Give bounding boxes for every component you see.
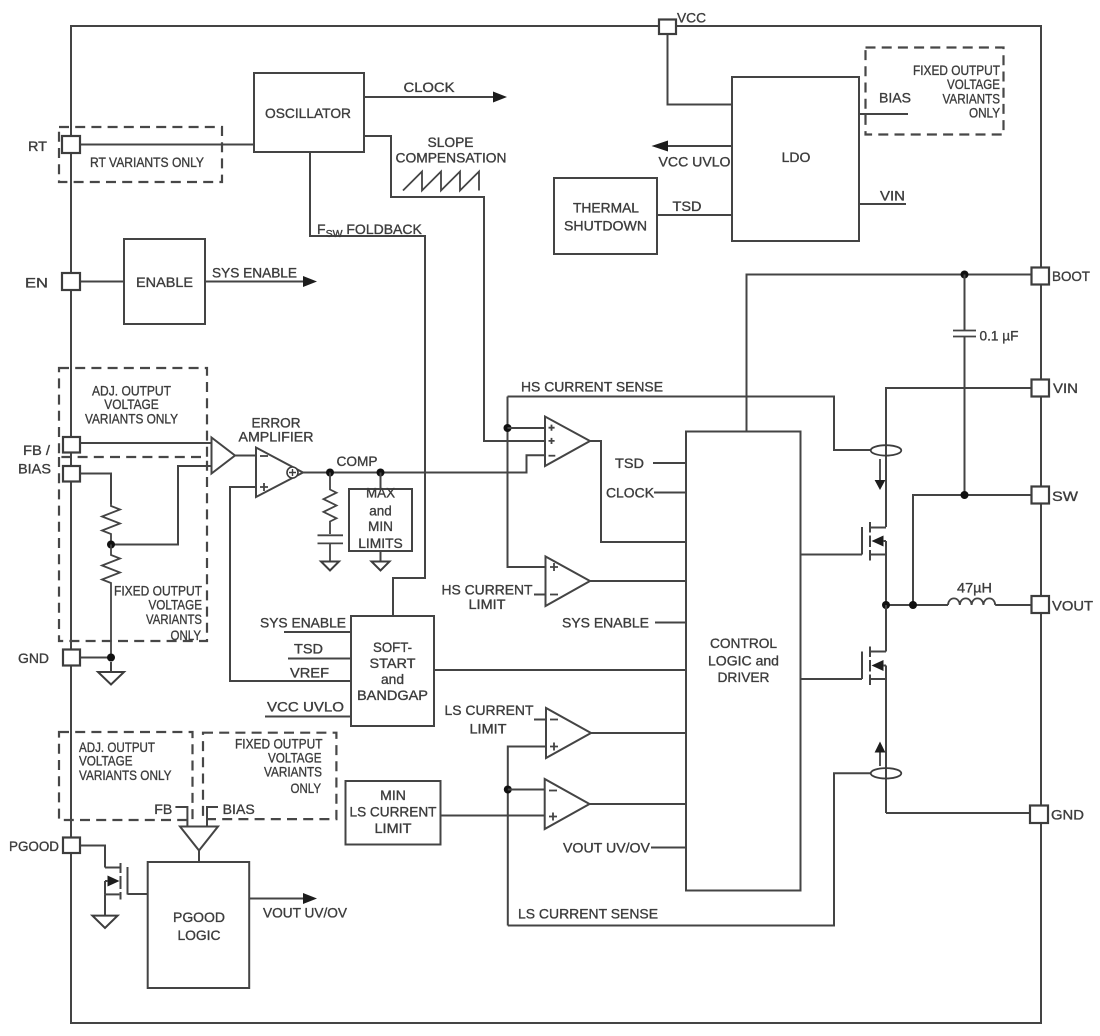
svg-text:LIMIT: LIMIT xyxy=(469,596,506,612)
junction dot COMP at limits box xyxy=(377,469,385,477)
ground symbol below COMP RC xyxy=(321,562,339,571)
svg-text:SLOPE: SLOPE xyxy=(428,134,474,150)
dashed box ADJ. OUTPUT VOLTAGE VARIANTS ONLY (middle left) xyxy=(59,368,207,457)
resistor upper divider xyxy=(102,504,120,545)
pin PGOOD xyxy=(63,838,80,854)
transistor high side FET xyxy=(801,522,887,605)
wire soft-start output to control logic xyxy=(434,669,686,671)
comparator LS current limit xyxy=(546,708,591,758)
wire VCC UVLO arrow from LDO xyxy=(652,141,733,170)
wire CLOCK arrow from oscillator xyxy=(364,79,507,103)
block THERMAL SHUTDOWN xyxy=(554,178,657,254)
wire VCC pin to LDO xyxy=(668,34,733,105)
svg-text:AMPLIFIER: AMPLIFIER xyxy=(239,429,314,445)
svg-text:LS CURRENT: LS CURRENT xyxy=(350,804,437,820)
wire low side source to GND pin xyxy=(886,812,1030,814)
arrow current direction down xyxy=(875,459,886,490)
dashed box RT VARIANTS ONLY xyxy=(59,127,222,182)
svg-text:VARIANTS: VARIANTS xyxy=(264,764,322,780)
ground symbol below limits box xyxy=(372,562,390,571)
svg-text:HS CURRENT SENSE: HS CURRENT SENSE xyxy=(521,379,663,395)
wire LS CURRENT SENSE line to ellipse sensor xyxy=(508,773,871,925)
compensation resistor at COMP xyxy=(324,473,337,535)
block MAX and MIN LIMITS xyxy=(349,485,412,552)
label TSD into control logic xyxy=(615,455,686,471)
merge triangle FB/BIAS xyxy=(180,827,218,851)
junction dot LS sense tap xyxy=(504,786,512,794)
svg-text:PGOOD: PGOOD xyxy=(173,909,225,925)
compensation capacitor at COMP xyxy=(318,535,344,561)
pin GND xyxy=(63,650,80,666)
svg-text:GND: GND xyxy=(18,650,49,666)
feedback buffer triangle xyxy=(212,438,236,474)
wire VCC UVLO into soft-start xyxy=(265,699,351,717)
svg-text:FB /: FB / xyxy=(23,442,50,458)
svg-text:FB: FB xyxy=(154,801,172,817)
pin EN xyxy=(62,273,80,290)
junction dot HS sense tap xyxy=(504,424,512,432)
block MIN LS CURRENT LIMIT xyxy=(346,781,441,845)
wire inductor to VOUT pin xyxy=(995,604,1031,606)
svg-text:START: START xyxy=(370,655,416,671)
svg-text:VCC: VCC xyxy=(677,10,706,26)
svg-text:and: and xyxy=(369,503,392,519)
svg-text:BIAS: BIAS xyxy=(223,801,255,817)
pin FB xyxy=(63,437,80,453)
sawtooth slope compensation symbol xyxy=(396,134,507,191)
svg-text:MAX: MAX xyxy=(366,485,396,501)
transistor low side FET xyxy=(801,605,887,813)
wire PWM comparator output to control logic xyxy=(590,441,686,542)
wire EN pin to ENABLE block xyxy=(80,281,124,283)
dashed box FIXED OUTPUT VOLTAGE VARIANTS ONLY (bottom) xyxy=(203,733,336,819)
svg-text:DRIVER: DRIVER xyxy=(718,669,770,685)
junction dot COMP at RC xyxy=(326,469,334,477)
svg-text:COMP: COMP xyxy=(337,453,378,469)
ground symbol below PGOOD FET xyxy=(92,916,117,928)
wire VOUT UV/OV arrow from PGOOD logic xyxy=(249,893,347,921)
wire LS sense tap to sense comparator xyxy=(508,789,545,791)
wire slope compensation from oscillator down to HS sense comparator input xyxy=(364,136,545,441)
svg-text:VIN: VIN xyxy=(1053,380,1078,396)
svg-text:LIMITS: LIMITS xyxy=(358,535,403,551)
wire BIAS input to pgood merge xyxy=(207,801,255,827)
inductor 47uH xyxy=(948,580,995,606)
wire VIN pin to high side FET drain xyxy=(886,388,1032,527)
svg-text:LS CURRENT SENSE: LS CURRENT SENSE xyxy=(518,906,658,922)
comparator HS current limit xyxy=(546,557,591,607)
svg-text:VCC UVLO: VCC UVLO xyxy=(267,699,344,715)
svg-text:VOUT UV/OV: VOUT UV/OV xyxy=(563,840,651,856)
wire BOOT rail to control logic xyxy=(747,275,1032,432)
wire switch node to inductor xyxy=(886,604,948,606)
svg-text:MIN: MIN xyxy=(380,787,406,803)
wire TSD into soft-start xyxy=(288,641,351,659)
pin GND right xyxy=(1030,806,1048,824)
label LS CURRENT LIMIT with stub xyxy=(445,702,547,737)
junction dot GND node xyxy=(107,654,115,662)
svg-text:THERMAL: THERMAL xyxy=(573,200,639,216)
svg-text:SW: SW xyxy=(1052,488,1079,504)
wire HS current sense line to ellipse sensor xyxy=(508,379,872,451)
svg-text:VREF: VREF xyxy=(290,665,329,681)
wire RT pin to oscillator xyxy=(80,144,254,146)
wire LS current limit output to control logic xyxy=(591,732,686,734)
ground symbol below GND node xyxy=(98,662,124,685)
comparator LS current sense xyxy=(545,779,590,829)
svg-text:CONTROL: CONTROL xyxy=(710,635,777,651)
wire TSD thermal-shutdown to LDO xyxy=(657,198,732,215)
svg-text:and: and xyxy=(381,671,404,687)
svg-text:VOUT: VOUT xyxy=(1052,598,1093,614)
svg-text:GND: GND xyxy=(1051,807,1084,823)
svg-text:LOGIC and: LOGIC and xyxy=(708,653,779,669)
wire VIN from LDO xyxy=(859,188,906,205)
svg-text:BIAS: BIAS xyxy=(879,90,911,106)
block OSCILLATOR xyxy=(254,73,364,152)
wire GND pin to divider bottom xyxy=(80,657,111,659)
capacitor 0.1uF bootstrap xyxy=(953,275,1019,495)
svg-text:EN: EN xyxy=(25,275,48,291)
svg-text:TSD: TSD xyxy=(294,641,323,657)
pin VOUT xyxy=(1032,596,1050,613)
wire HS current limit output to control logic xyxy=(590,580,686,582)
wire FSW FOLDBACK from oscillator to soft-start xyxy=(310,152,425,616)
svg-text:47µH: 47µH xyxy=(957,580,992,596)
pin RT xyxy=(62,136,80,153)
svg-text:RT VARIANTS ONLY: RT VARIANTS ONLY xyxy=(90,154,205,170)
svg-text:CLOCK: CLOCK xyxy=(606,485,655,501)
pin BOOT xyxy=(1032,268,1050,285)
pin VCC xyxy=(659,20,676,35)
wire HS sense down to comparators xyxy=(508,397,546,568)
svg-text:LOGIC: LOGIC xyxy=(178,927,221,943)
dashed box FIXED OUTPUT VOLTAGE VARIANTS ONLY (middle left) xyxy=(59,457,207,643)
wire SYS ENABLE arrow from ENABLE block xyxy=(205,265,317,288)
svg-text:VARIANTS: VARIANTS xyxy=(146,611,202,627)
svg-text:BOOT: BOOT xyxy=(1052,268,1090,284)
current sense ellipse high side xyxy=(871,445,902,455)
svg-text:PGOOD: PGOOD xyxy=(9,838,59,854)
label CLOCK into control logic xyxy=(606,485,686,501)
junction dot divider midpoint xyxy=(107,541,115,549)
block ENABLE xyxy=(124,239,205,324)
wire SW pin to switch node xyxy=(913,495,1032,605)
wire HS sense tap to comparator input xyxy=(508,427,546,429)
svg-text:TSD: TSD xyxy=(673,198,702,214)
pin SW xyxy=(1032,487,1050,504)
svg-text:TSD: TSD xyxy=(615,455,644,471)
svg-text:LIMIT: LIMIT xyxy=(470,721,507,737)
resistor lower divider xyxy=(102,545,120,658)
wire COMP node from error amplifier to HS sense comparator xyxy=(303,455,545,472)
wire FB input to pgood merge xyxy=(154,801,187,827)
pin VIN xyxy=(1032,380,1050,397)
svg-text:BIAS: BIAS xyxy=(18,461,51,477)
dashed box FIXED OUTPUT VOLTAGE VARIANTS ONLY (top right) xyxy=(866,48,1004,135)
op-amp error amplifier xyxy=(239,415,314,498)
svg-text:OSCILLATOR: OSCILLATOR xyxy=(265,105,351,121)
svg-text:LS CURRENT: LS CURRENT xyxy=(445,702,534,718)
wire limits box to ground xyxy=(380,551,382,562)
svg-text:ONLY: ONLY xyxy=(171,627,202,643)
arrow current direction up xyxy=(875,742,886,767)
block SOFT-START and BANDGAP xyxy=(351,616,434,726)
junction dot switch node at SW jog xyxy=(909,601,917,609)
current sense ellipse low side xyxy=(871,768,902,778)
svg-text:LDO: LDO xyxy=(782,149,811,165)
comparator HS current sense (PWM) xyxy=(545,417,590,467)
svg-text:MIN: MIN xyxy=(368,518,393,534)
svg-text:ENABLE: ENABLE xyxy=(136,274,193,290)
label SYS ENABLE into control logic xyxy=(562,615,686,631)
wire COMP dot into limits box xyxy=(380,473,382,492)
svg-text:SYS ENABLE: SYS ENABLE xyxy=(260,615,346,631)
label VOUT UV/OV into control logic xyxy=(563,840,686,856)
pin BIAS xyxy=(63,466,80,482)
svg-text:VCC UVLO: VCC UVLO xyxy=(659,154,731,170)
wire FB pin to feedback buffer xyxy=(80,442,212,444)
wire MIN LS limit box to comparator xyxy=(441,815,545,817)
block LDO xyxy=(732,77,859,241)
wire BIAS pin to divider xyxy=(80,474,111,505)
label HS CURRENT LIMIT with stub xyxy=(442,582,546,613)
wire divider midpoint to buffer lower input xyxy=(111,466,212,545)
svg-text:ONLY: ONLY xyxy=(969,105,1001,121)
svg-text:SHUTDOWN: SHUTDOWN xyxy=(564,218,647,234)
block PGOOD LOGIC xyxy=(148,862,250,988)
svg-text:COMPENSATION: COMPENSATION xyxy=(396,150,507,166)
block CONTROL LOGIC and DRIVER xyxy=(686,432,801,891)
svg-text:VARIANTS ONLY: VARIANTS ONLY xyxy=(79,767,172,783)
wire LS sense riser to comparators xyxy=(508,747,546,926)
svg-text:SYS ENABLE: SYS ENABLE xyxy=(562,615,649,631)
svg-text:SOFT-: SOFT- xyxy=(373,639,412,655)
svg-text:ONLY: ONLY xyxy=(291,780,322,796)
svg-text:BANDGAP: BANDGAP xyxy=(357,687,428,703)
dashed box ADJ. OUTPUT VOLTAGE VARIANTS ONLY (bottom left) xyxy=(59,732,193,820)
junction dot SW at bootstrap cap xyxy=(961,491,969,499)
wire PGOOD pin to pull-down FET drain xyxy=(80,846,105,868)
wire BIAS from LDO xyxy=(859,90,911,115)
transistor PGOOD pull-down FET xyxy=(105,863,148,916)
svg-text:0.1 µF: 0.1 µF xyxy=(980,328,1019,344)
svg-text:RT: RT xyxy=(28,138,47,154)
wire merge triangle to pgood logic xyxy=(198,851,200,863)
svg-text:SYS ENABLE: SYS ENABLE xyxy=(212,265,297,281)
svg-text:VIN: VIN xyxy=(880,188,905,204)
svg-text:VARIANTS ONLY: VARIANTS ONLY xyxy=(85,411,179,427)
wire SYS ENABLE into soft-start xyxy=(260,615,351,633)
svg-text:LIMIT: LIMIT xyxy=(375,820,412,836)
svg-text:VOUT UV/OV: VOUT UV/OV xyxy=(263,905,348,921)
junction dot switch node at FET xyxy=(882,601,890,609)
wire LS current sense comparator output to control logic xyxy=(590,803,687,805)
junction dot BOOT at bootstrap cap xyxy=(961,271,969,279)
wire buffer to error amplifier inverting input xyxy=(235,455,256,457)
svg-text:CLOCK: CLOCK xyxy=(404,79,456,95)
wire VREF to error amplifier non-inverting input xyxy=(230,487,351,681)
